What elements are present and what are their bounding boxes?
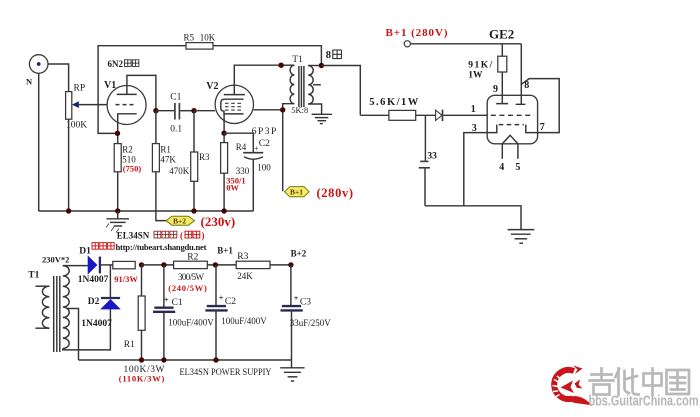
node C1 / R3 / V2 grid <box>191 108 196 113</box>
node speaker 8ohm tap <box>319 63 324 68</box>
B+2 supply flag <box>166 214 235 229</box>
svg-text:33uF/250V: 33uF/250V <box>290 318 332 328</box>
wire secondary bottom to D2 <box>63 309 111 350</box>
svg-text:http://tubeart.shangdu.net: http://tubeart.shangdu.net <box>116 242 207 252</box>
resistor R1 47K to B+2 tag <box>152 111 176 221</box>
svg-text:8: 8 <box>524 80 529 91</box>
resistor 91/3W <box>113 261 139 284</box>
svg-text:7: 7 <box>540 122 545 133</box>
svg-text:230V*2: 230V*2 <box>42 255 69 265</box>
svg-text:C3: C3 <box>300 298 311 308</box>
svg-text:T1: T1 <box>28 271 39 281</box>
capacitor 33 <box>419 115 437 206</box>
RP wiper arrow to V1 grid <box>72 101 107 108</box>
label EL34SN modified <box>117 231 205 241</box>
heater pins 4 5 <box>502 144 518 159</box>
GuitarChina red G logo <box>553 366 593 406</box>
svg-text:91/3W: 91/3W <box>114 274 138 284</box>
svg-text:91K/: 91K/ <box>468 61 492 71</box>
svg-text:6P3P: 6P3P <box>252 127 276 137</box>
capacitor C1 0.1 <box>156 92 194 134</box>
tube V2 6P3P <box>194 65 283 137</box>
6E2 cathode row with hooks <box>487 125 537 133</box>
wire 8ohm to indicator section <box>321 66 360 116</box>
svg-text:R2: R2 <box>187 252 198 262</box>
resistor R2 510 <box>114 144 141 211</box>
ground bus <box>39 210 254 212</box>
svg-text:C2: C2 <box>225 297 236 307</box>
resistor R3 24K <box>236 252 270 281</box>
svg-text:bbs.GuitarChina.com: bbs.GuitarChina.com <box>589 394 699 410</box>
node after 91/3W <box>139 262 144 267</box>
label 6N2 parallel <box>108 59 139 69</box>
svg-text:V2: V2 <box>206 81 218 92</box>
svg-text:+: + <box>294 293 299 303</box>
svg-text:C1: C1 <box>170 92 181 102</box>
node screen / B+1 <box>280 107 285 112</box>
svg-text:R1: R1 <box>124 340 135 350</box>
svg-text:D1: D1 <box>79 246 91 256</box>
ground run wire <box>425 206 521 230</box>
svg-text:0.1: 0.1 <box>170 124 182 134</box>
svg-text:0W: 0W <box>226 183 239 193</box>
svg-text:100uF/400V: 100uF/400V <box>168 318 214 328</box>
node RP-bus <box>66 208 71 213</box>
diode D3 (indicator) <box>436 110 488 122</box>
node C1 bottom <box>161 357 166 362</box>
svg-text:R1: R1 <box>160 144 171 154</box>
svg-text:6N2: 6N2 <box>108 59 124 69</box>
svg-text:D2: D2 <box>88 297 100 307</box>
svg-text:C2: C2 <box>259 139 270 149</box>
svg-text:V1: V1 <box>104 80 116 91</box>
svg-text:EL34SN POWER SUPPIY: EL34SN POWER SUPPIY <box>180 368 272 378</box>
svg-text:(750): (750) <box>123 164 142 174</box>
diode D1 1N4007 <box>78 246 113 285</box>
6E2 grid dashed row <box>491 114 534 116</box>
svg-text:B+1: B+1 <box>290 188 303 197</box>
svg-text:10K: 10K <box>200 33 216 43</box>
wire pin8 to pin7 loop <box>521 79 559 133</box>
resistor R2 300/5W <box>168 252 207 293</box>
capacitor C2 100uF/400V <box>205 265 267 360</box>
svg-text:(230v): (230v) <box>201 214 236 229</box>
B+ rail <box>142 264 291 266</box>
svg-text:R4: R4 <box>236 142 247 152</box>
6E2 internal plates pin9 pin8 <box>496 95 525 104</box>
GuitarChina text 吉他中国 <box>590 369 690 396</box>
ground symbol PSU <box>280 360 304 381</box>
svg-text:R2: R2 <box>122 144 133 154</box>
node B+1 <box>213 262 218 267</box>
node V1 plate / C1 / R1 <box>153 108 158 113</box>
wire jack to RP <box>48 64 69 92</box>
svg-text:(110K/3W): (110K/3W) <box>119 373 165 383</box>
svg-text:47K: 47K <box>160 154 176 164</box>
wire pin3 to ground run <box>464 133 487 206</box>
wire jack sleeve to ground bus <box>38 73 40 211</box>
svg-text:24K: 24K <box>237 271 253 281</box>
svg-text:EL34SN: EL34SN <box>117 231 150 241</box>
svg-text:100uF/400V: 100uF/400V <box>221 316 267 326</box>
svg-text:1: 1 <box>471 104 476 115</box>
svg-text:RP: RP <box>74 84 86 94</box>
svg-text:5K:8: 5K:8 <box>291 105 308 115</box>
terminal B+1 <box>404 41 410 47</box>
node R2-bus <box>115 208 120 213</box>
svg-text:300/5W: 300/5W <box>178 272 205 282</box>
svg-text:(: ( <box>180 231 183 241</box>
B+1 supply flag <box>285 186 353 200</box>
svg-text:GE2: GE2 <box>489 26 514 41</box>
svg-text:B+2: B+2 <box>173 217 186 226</box>
ground symbol under R2 <box>106 211 129 233</box>
tube U1 6E2 envelope <box>487 95 537 144</box>
resistor 91K/1W <box>468 44 507 96</box>
tube V1 6N2 <box>104 75 156 143</box>
resistor 5.6K/1W <box>360 97 435 121</box>
ground symbol 6E2 <box>508 230 535 244</box>
resistor R4 330 <box>221 133 250 211</box>
svg-text:330: 330 <box>236 166 250 176</box>
svg-text:R5: R5 <box>184 33 195 43</box>
svg-text:4: 4 <box>499 162 504 173</box>
resistor R1 100K/3W <box>124 265 145 360</box>
svg-text:T1: T1 <box>292 55 303 65</box>
wire secondary top to D1 <box>63 265 88 267</box>
label 8 ohm <box>326 50 342 61</box>
svg-text:B+2: B+2 <box>291 249 307 259</box>
pin number labels <box>471 80 545 173</box>
6E2 heater chevron <box>502 135 518 144</box>
power transformer T1 230V*2 <box>28 255 69 352</box>
wire RP bottom to ground bus <box>68 119 70 211</box>
resistor R3 470K <box>169 111 210 211</box>
label tubeart url <box>92 242 207 252</box>
capacitor C1 100uF/400V <box>153 265 214 360</box>
wire B+1 rail <box>410 43 521 45</box>
wire pin8 drop <box>520 44 522 96</box>
svg-text:B+1 (280V): B+1 (280V) <box>386 27 448 39</box>
svg-text:1N4007: 1N4007 <box>78 275 109 285</box>
ground symbol under T1 secondary <box>312 114 332 123</box>
node C1 top <box>161 262 166 267</box>
wire center tap to ground bus <box>67 309 79 361</box>
svg-text:R3: R3 <box>199 152 210 162</box>
svg-text:1N4007: 1N4007 <box>81 319 112 329</box>
node R3-bus <box>191 208 196 213</box>
psu ground bus <box>79 359 292 361</box>
svg-text:R3: R3 <box>237 252 248 262</box>
svg-text:+: + <box>164 295 169 305</box>
svg-text:N: N <box>26 77 33 87</box>
svg-text:470K: 470K <box>169 166 190 176</box>
svg-text:): ) <box>202 231 205 241</box>
svg-text:C1: C1 <box>172 298 183 308</box>
node R1 bottom <box>139 357 144 362</box>
output transformer T1 5K:8 <box>281 55 322 191</box>
input jack N <box>26 55 48 87</box>
node V2 cathode <box>221 131 226 136</box>
svg-text:9: 9 <box>493 84 498 95</box>
svg-text:8: 8 <box>326 50 331 61</box>
svg-text:(280v): (280v) <box>317 186 354 200</box>
svg-text:B+1: B+1 <box>217 245 233 255</box>
svg-text:100: 100 <box>257 163 271 173</box>
node R4-bus <box>221 208 226 213</box>
svg-text:1W: 1W <box>468 71 483 81</box>
diode D2 1N4007 <box>81 265 120 329</box>
svg-text:33: 33 <box>427 152 437 162</box>
potentiometer RP 100K <box>66 84 88 131</box>
svg-text:5: 5 <box>515 162 520 173</box>
svg-text:+: + <box>219 292 224 302</box>
node C2 bottom <box>213 357 218 362</box>
svg-text:5.6K/1W: 5.6K/1W <box>369 97 419 108</box>
node V1 cathode <box>115 131 120 136</box>
node B+2 <box>288 262 293 267</box>
feedback rail with resistor R5 10K <box>98 33 321 134</box>
svg-text:(240/5W): (240/5W) <box>168 283 207 293</box>
capacitor C2 100 (cathode bypass) <box>224 133 271 211</box>
capacitor C3 33uF/250V <box>281 265 332 360</box>
node V2 plate / primary top <box>278 62 283 67</box>
